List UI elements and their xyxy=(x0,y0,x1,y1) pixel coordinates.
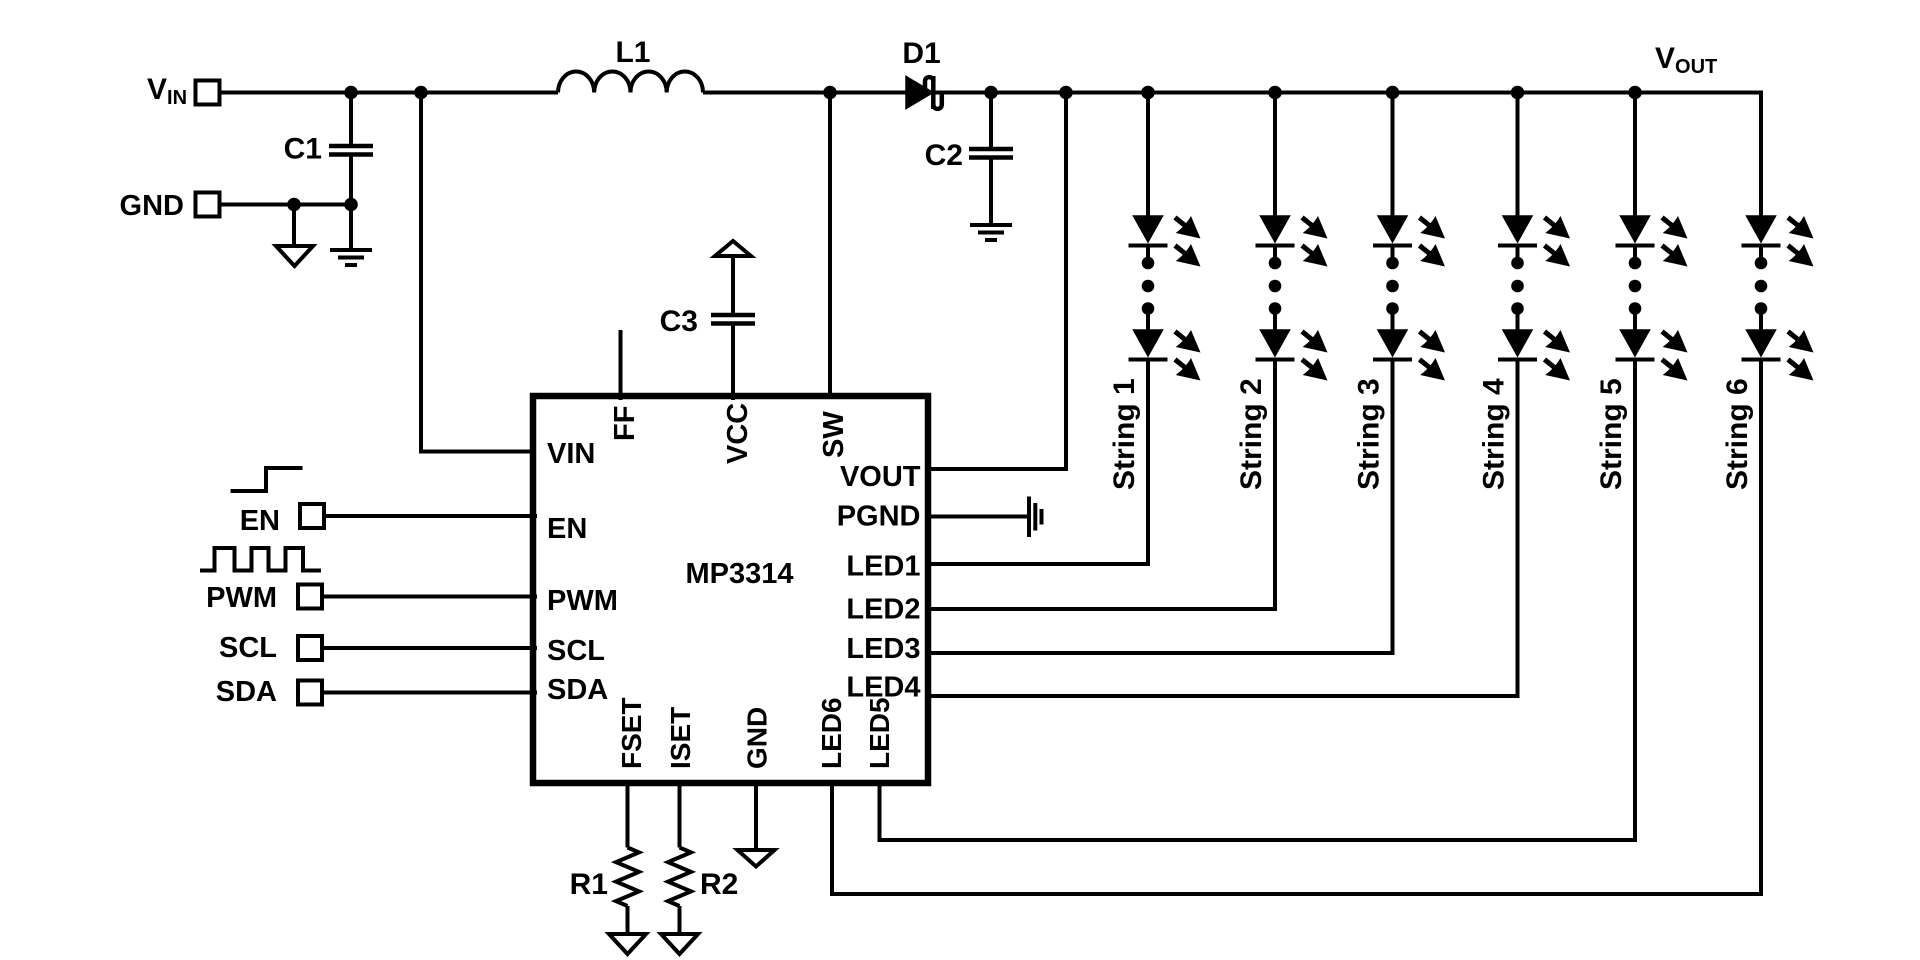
dots (more LEDs) xyxy=(1516,246,1520,264)
LED D1b xyxy=(1129,330,1201,381)
svg-text:SCL: SCL xyxy=(547,635,605,667)
wire xyxy=(931,93,1066,470)
junction xyxy=(984,86,998,100)
LED D3b xyxy=(1373,330,1445,381)
wire String 6 return xyxy=(832,360,1761,895)
resistor R1 xyxy=(616,848,639,907)
capacitor C3 xyxy=(660,256,755,400)
svg-text:String 4: String 4 xyxy=(1478,378,1511,490)
wire String 5 return xyxy=(880,360,1636,841)
LED D2a xyxy=(1256,216,1328,267)
wire xyxy=(324,691,537,695)
terminal EN pad xyxy=(300,504,324,528)
LED D6a xyxy=(1742,216,1814,267)
junction xyxy=(344,86,358,100)
wire xyxy=(754,780,758,851)
svg-text:EN: EN xyxy=(547,513,587,545)
svg-text:D1: D1 xyxy=(902,37,940,70)
ground (earth) xyxy=(330,250,372,265)
svg-text:PWM: PWM xyxy=(206,582,277,614)
ground xyxy=(738,850,775,867)
wire xyxy=(678,906,682,934)
terminal SCL pad xyxy=(298,636,322,660)
svg-text:String 3: String 3 xyxy=(1353,378,1386,490)
EN step waveform xyxy=(231,468,303,491)
svg-text:EN: EN xyxy=(240,505,280,537)
wire xyxy=(626,780,630,848)
junction xyxy=(344,198,358,212)
junction xyxy=(1059,86,1073,100)
dots (more LEDs) xyxy=(1759,246,1763,264)
terminal PWM pad xyxy=(298,585,322,609)
wire xyxy=(326,514,537,518)
svg-text:C3: C3 xyxy=(660,305,698,338)
svg-text:GND: GND xyxy=(742,707,773,769)
junction xyxy=(414,86,428,100)
node String 1 top xyxy=(1141,86,1155,100)
wire xyxy=(828,93,832,401)
node String 2 top xyxy=(1268,86,1282,100)
svg-text:LED5: LED5 xyxy=(864,697,895,769)
svg-text:GND: GND xyxy=(120,190,184,222)
wire xyxy=(324,646,537,650)
svg-text:ISET: ISET xyxy=(665,707,696,769)
inductor L1 xyxy=(558,36,703,93)
junction xyxy=(823,86,837,100)
svg-text:R2: R2 xyxy=(700,868,738,901)
dots (more LEDs) xyxy=(1273,246,1277,264)
svg-text:String 5: String 5 xyxy=(1595,378,1628,490)
svg-text:LED3: LED3 xyxy=(846,633,920,665)
wire String 2 return xyxy=(931,360,1275,610)
ground xyxy=(276,246,313,266)
ground xyxy=(661,934,698,954)
ground (PGND earth, rotated) xyxy=(1029,497,1042,538)
IC U1 MP3314 xyxy=(533,396,928,783)
svg-text:LED6: LED6 xyxy=(816,697,847,769)
wire xyxy=(292,205,296,247)
wire xyxy=(933,91,1763,95)
dots (more LEDs) xyxy=(1391,246,1395,264)
svg-text:VIN: VIN xyxy=(547,438,595,470)
terminal GND pad xyxy=(196,193,220,217)
svg-text:C2: C2 xyxy=(925,139,963,172)
LED D4a xyxy=(1498,216,1570,267)
LED D5a xyxy=(1616,216,1688,267)
wire xyxy=(222,91,559,95)
svg-text:LED1: LED1 xyxy=(846,551,920,583)
wire String 4 return xyxy=(931,360,1518,697)
svg-text:VOUT: VOUT xyxy=(840,461,921,493)
capacitor C1 xyxy=(284,93,373,205)
junction xyxy=(287,198,301,212)
svg-text:MP3314: MP3314 xyxy=(685,558,793,590)
LED D5b xyxy=(1616,330,1688,381)
wire xyxy=(626,906,630,934)
svg-text:VCC: VCC xyxy=(722,403,754,464)
node String 5 top xyxy=(1628,86,1642,100)
svg-text:R1: R1 xyxy=(570,868,608,901)
dots (more LEDs) xyxy=(1146,246,1150,264)
svg-text:LED2: LED2 xyxy=(846,594,920,626)
LED D3a xyxy=(1373,216,1445,267)
LED D2b xyxy=(1256,330,1328,381)
wire String 1 return xyxy=(931,360,1148,565)
svg-text:String 2: String 2 xyxy=(1235,378,1268,490)
ground xyxy=(609,934,646,954)
ground (earth) xyxy=(970,225,1012,240)
node String 3 top xyxy=(1386,86,1400,100)
wire xyxy=(931,515,1029,519)
terminal SDA pad xyxy=(298,681,322,705)
svg-text:FF: FF xyxy=(609,406,641,441)
PWM square waveform xyxy=(200,548,321,571)
svg-text:SDA: SDA xyxy=(216,676,277,708)
LED D4b xyxy=(1498,330,1570,381)
wire xyxy=(703,91,907,95)
diode D1 (schottky) xyxy=(902,37,941,109)
svg-text:FSET: FSET xyxy=(616,697,647,769)
svg-text:String 1: String 1 xyxy=(1108,378,1141,490)
power VCC arrow xyxy=(715,241,751,256)
svg-text:PWM: PWM xyxy=(547,585,618,617)
svg-text:L1: L1 xyxy=(615,36,650,69)
wire xyxy=(619,330,623,400)
wire xyxy=(421,93,537,452)
capacitor C2 xyxy=(925,93,1013,226)
node String 4 top xyxy=(1511,86,1525,100)
svg-text:String 6: String 6 xyxy=(1721,378,1754,490)
svg-text:SW: SW xyxy=(818,411,850,458)
svg-text:SCL: SCL xyxy=(219,632,277,664)
LED D6b xyxy=(1742,330,1814,381)
wire xyxy=(678,780,682,848)
resistor R2 xyxy=(668,848,691,907)
svg-text:PGND: PGND xyxy=(837,501,921,533)
node String 6 top xyxy=(1759,91,1763,217)
wire String 3 return xyxy=(931,360,1393,654)
wire xyxy=(349,205,353,251)
terminal VIN pad xyxy=(196,81,220,105)
wire xyxy=(324,595,537,599)
svg-text:SDA: SDA xyxy=(547,674,608,706)
dots (more LEDs) xyxy=(1633,246,1637,264)
wire xyxy=(222,203,352,207)
LED D1a xyxy=(1129,216,1201,267)
svg-text:C1: C1 xyxy=(284,133,322,166)
